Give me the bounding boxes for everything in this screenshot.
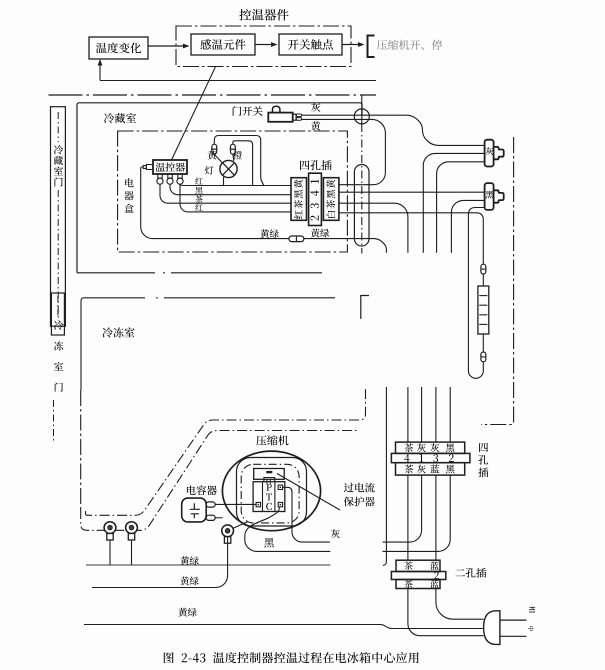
wire 红 from terminal3	[180, 184, 291, 185]
label 过电流	[344, 483, 375, 493]
caption 图 2-43 ...	[164, 652, 419, 663]
capacitor box	[182, 498, 207, 522]
resumed vertical wire x=435.9	[435, 387, 437, 442]
bottom plug bottom box	[396, 463, 465, 475]
PTC letter T	[266, 493, 272, 500]
label: temperature control components 控温器件	[239, 9, 288, 21]
door strip1 centerline dash-dot top	[57, 112, 59, 142]
ring terminal ground 2	[126, 522, 138, 534]
label 保护器	[344, 497, 375, 507]
bottom plug top label 黑	[446, 443, 455, 452]
ground bus line2 to compressor terminal	[92, 537, 228, 587]
resumed vertical wire x=386.4	[385, 387, 387, 442]
bottom plug middle box	[391, 453, 470, 462]
vertical text 冷藏室门	[54, 145, 63, 154]
PTC terminal left	[256, 502, 260, 506]
label 四孔插	[300, 160, 332, 170]
rotated label 茶 right box	[326, 200, 335, 209]
ring terminal compressor ground	[222, 525, 234, 537]
resumed vertical wire x=421.6	[421, 387, 423, 442]
compartment slope inner (solid+diagonal D1)	[86, 387, 366, 515]
overcurrent protector leader line	[277, 474, 340, 511]
door strip2 dash-dot below text	[53, 400, 55, 442]
label 电容器	[187, 485, 217, 495]
black wire: plug to 黑 connector	[339, 191, 485, 193]
text 开关触点	[288, 39, 333, 50]
PTC letter P	[266, 484, 271, 491]
yellow-green ground wire from thermostat nub	[141, 167, 289, 239]
connector 灰 (grey socket)	[485, 140, 494, 167]
lamp circuit inner wire to red wire	[233, 141, 253, 186]
terminal1 wire down	[109, 541, 111, 565]
long bottom wire to power plug	[84, 625, 484, 629]
two-hole plug top box	[396, 560, 440, 571]
wire 黑 from terminal2	[170, 184, 291, 194]
grey wire resumed segment to plug	[383, 475, 422, 542]
power plug prong bottom	[500, 635, 527, 637]
lamp lead right oval to circle	[232, 154, 235, 161]
bottom plug bottom label 茶	[404, 465, 413, 474]
PTC terminal right-bottom	[278, 502, 282, 506]
door switch pin1	[296, 114, 302, 117]
capacitor symbol	[190, 503, 200, 518]
bracket for compressor on/off	[368, 36, 375, 58]
compressor winding ring	[237, 458, 307, 527]
vertical label 四孔插 bottom plug	[479, 443, 488, 452]
label 门开关	[233, 106, 263, 116]
capacitor wire to PTC	[215, 503, 256, 505]
thermostat 温控器 box	[153, 160, 187, 174]
ground wire fuse to elbow down	[304, 239, 387, 253]
thermostat capillary nub	[143, 165, 153, 170]
feedback wire with up arrow into 温度变化	[100, 62, 376, 81]
二孔插 top 茶	[404, 562, 412, 570]
freezer left wall dash-dot lower	[80, 390, 82, 509]
overload link wire b	[269, 479, 271, 484]
label 灰 switch wire	[311, 103, 320, 112]
thermostat terminal 2	[168, 174, 172, 178]
yellow-green lower end hook	[383, 541, 387, 565]
door switch body	[268, 113, 292, 122]
arrow 感温元件 to 开关触点	[255, 44, 271, 46]
power plug D-shape	[484, 611, 500, 645]
plug right box (白茶黑黄)	[323, 178, 339, 221]
compressor ground bracket tick	[233, 522, 247, 528]
diagonal leader from sensing element to thermostat	[172, 67, 216, 160]
lamp circuit outer wire to red wire	[214, 136, 264, 186]
capacitor pin2 stub	[215, 517, 222, 519]
vertical text 电器盒	[125, 178, 133, 187]
bottom plug digit 2	[449, 454, 454, 462]
lamp bottom stub to red wire	[223, 177, 225, 185]
wire 红 lower from terminal3	[180, 184, 291, 212]
wall grommet capsule	[354, 165, 369, 247]
label 黄绿 left of fuse	[260, 229, 278, 238]
lamp 黄灯 circle with X	[220, 160, 237, 177]
fridge liner: top and left wall	[77, 103, 362, 273]
wire color label 黑	[195, 187, 202, 194]
wire color label 茶	[195, 195, 203, 202]
tiny rotated label near prong top	[529, 606, 535, 612]
text 温度变化	[96, 43, 141, 54]
plug middle box (2341)	[309, 173, 322, 225]
bottom plug digit 4	[404, 454, 409, 462]
PTC column to overload link	[264, 478, 275, 482]
door switch pin2	[296, 118, 302, 121]
yellow-green vertical passes plug	[385, 442, 387, 541]
brown wire below bottom plug	[407, 475, 409, 560]
resumed vertical wire x=407.9	[407, 387, 409, 442]
二孔插 bottom 蓝	[430, 580, 438, 588]
blue wire to power plug	[436, 589, 484, 620]
PTC terminal right-mid	[278, 485, 282, 489]
arrow 开关触点 to compressor bracket	[342, 44, 358, 46]
resumed vertical wire x=450.2	[449, 387, 451, 442]
defrost heater element	[478, 286, 489, 334]
label 灰 compressor wire	[331, 529, 340, 538]
compartment slope outer dash-dot D2	[81, 431, 357, 531]
terminal2 wire down	[131, 541, 133, 565]
door switch neck	[293, 114, 296, 120]
rotated label 白 right box	[326, 211, 335, 218]
bottom plug top box	[396, 442, 465, 453]
grey wire: switch to 灰 connector	[302, 115, 485, 145]
thermostat terminal 1	[158, 174, 162, 178]
PTC starter outer box	[253, 482, 285, 512]
bottom plug bottom label 蓝	[430, 465, 439, 473]
wire 茶 from terminal1	[160, 184, 291, 203]
label 黄绿 bottom 3	[178, 608, 196, 617]
bottom plug bottom label 灰	[417, 465, 426, 474]
bead connector lower	[481, 352, 486, 362]
lamp lead left oval to circle	[214, 154, 222, 163]
label 橙	[233, 151, 242, 160]
two-hole plug bottom box	[396, 580, 440, 589]
black wire curve into PTC	[245, 507, 280, 536]
bottom plug bottom label 黑	[446, 465, 455, 474]
text 温控器	[156, 162, 185, 171]
rotated digit 2	[310, 215, 318, 220]
label 黑 compressor wire	[264, 538, 274, 548]
black connector wire2 from below	[451, 200, 484, 252]
label 黄 switch wire	[311, 121, 320, 130]
bottom plug digit 3	[433, 454, 438, 462]
rotated digit 1	[311, 179, 319, 183]
label 冷冻室	[102, 327, 134, 337]
lamp holder oval right	[231, 144, 236, 154]
blue wire below bottom plug	[435, 475, 437, 560]
label 灯	[205, 166, 214, 175]
bottom plug digit 1	[419, 454, 423, 462]
vertical text 冷冻室门	[54, 321, 63, 330]
cabinet top wall dash-dot	[49, 94, 377, 96]
rotated label 茶 left box	[294, 200, 303, 209]
rotated label 黑 left box	[294, 190, 303, 199]
tiny rotated label near prong bottom	[528, 626, 534, 631]
label 灰 on connector	[486, 147, 494, 155]
ring terminal ground 1	[104, 522, 116, 534]
power plug prong top	[500, 619, 527, 621]
door strip2 centerline	[57, 296, 59, 318]
freezer liner top continuation	[156, 297, 335, 299]
label 压缩机	[256, 435, 288, 445]
freezer liner: top and left wall	[81, 298, 145, 390]
dash-dot enclosure for control components	[176, 26, 351, 67]
label 冷藏室	[104, 113, 136, 123]
bead connector upper	[481, 264, 486, 274]
brown wire: plug to vertical down	[339, 203, 408, 253]
overload protector box	[254, 469, 285, 480]
grey connector wire2 from below	[423, 153, 484, 252]
text 压缩机开、停 (gray)	[377, 40, 442, 50]
bottom plug top label 茶	[404, 443, 413, 452]
yellow wire: switch down to plug top-right	[302, 119, 386, 184]
black wire resumed segment to plug	[383, 475, 451, 551]
二孔插 bottom 茶	[404, 580, 412, 588]
PTC divider right	[274, 482, 276, 512]
text 感温元件	[200, 39, 245, 50]
thermostat terminal 3	[178, 174, 182, 178]
label 黄绿 right of fuse	[311, 229, 329, 238]
wall centerline dash-dot circle-to-below-capsule	[361, 124, 363, 254]
wire color label 红	[195, 177, 202, 184]
rotated label 红 left box	[294, 210, 302, 219]
door switch button dome	[273, 106, 280, 112]
grey wire from PTC right terminal	[283, 487, 330, 542]
overload heater mark	[266, 471, 272, 473]
PTC divider left	[262, 482, 264, 512]
rotated label 黄 left box	[294, 179, 303, 188]
door strip1 centerline dash-dot bottom	[57, 190, 59, 321]
plug left box (红茶黑黄)	[291, 178, 307, 221]
arrow 温度变化 to 感温元件	[148, 45, 183, 47]
label 黑 on connector	[486, 191, 494, 199]
cabinet right wall dash-dot	[481, 137, 514, 425]
block: sensing element 感温元件	[191, 34, 255, 55]
rotated label 黄 right box	[326, 179, 335, 188]
block: temperature change 温度变化	[89, 37, 148, 59]
label 黄	[208, 151, 217, 160]
capacitor pin2	[206, 515, 215, 520]
lamp holder oval left	[212, 144, 217, 154]
二孔插 top 蓝	[430, 561, 438, 569]
heater loop: white wire from plug via heater to 黑 connector	[339, 208, 485, 379]
inline fuse/connector on ground wire	[289, 236, 304, 242]
block: switch contact 开关触点	[279, 34, 342, 55]
connector 黑 (black socket)	[485, 183, 494, 210]
PTC letter C	[266, 503, 272, 510]
brown wire to power plug	[408, 589, 484, 636]
compressor shell	[222, 451, 320, 531]
fridge door strip 冷藏室门	[51, 107, 66, 327]
ground bus line1	[86, 564, 330, 566]
freezer door strip 冷冻室门	[51, 293, 64, 335]
bottom plug top label 灰	[430, 443, 439, 452]
rotated digit 3	[310, 203, 318, 208]
bottom plug top label 灰	[417, 443, 426, 452]
wire color label 红	[195, 204, 202, 211]
black wire compressor side	[245, 536, 330, 551]
freezer liner right corner mark	[361, 296, 369, 320]
electrical box 电器盒 dash-dot enclosure	[118, 131, 348, 252]
capacitor pin1	[206, 502, 215, 507]
wall centerline above circle	[361, 96, 363, 125]
label 黄绿 bottom 1	[180, 556, 198, 565]
grey connector wire3 from below	[437, 162, 485, 253]
feedback arrowhead	[98, 59, 103, 66]
fridge liner bottom long-dash	[77, 272, 322, 274]
rotated digit 4	[311, 190, 319, 196]
二孔插 digit 2	[434, 572, 439, 579]
compressor motor dash-dot boundary	[241, 464, 299, 523]
label 二孔插	[455, 568, 486, 578]
overload link wire a	[266, 479, 268, 484]
label 黄绿 bottom 2	[180, 577, 198, 586]
rotated label 黑 right box	[327, 190, 336, 199]
wall grommet circle	[354, 109, 369, 124]
two-hole plug middle box	[391, 572, 445, 580]
